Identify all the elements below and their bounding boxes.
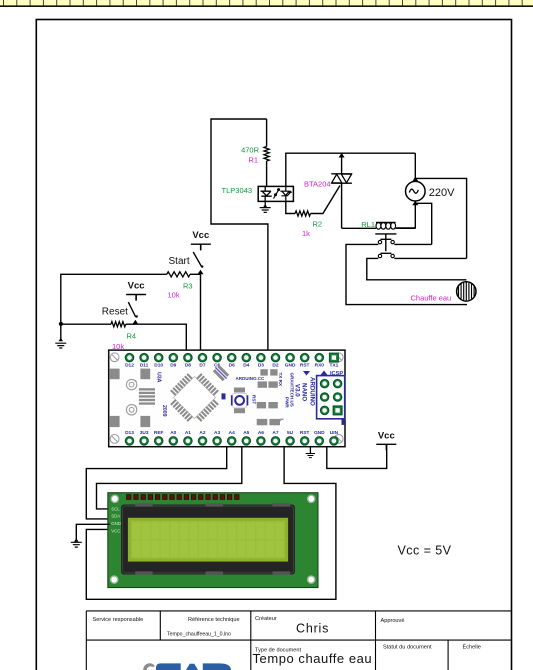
relay RL1 contacts: [375, 234, 396, 258]
svg-text:REF: REF: [154, 430, 164, 436]
svg-text:Reset: Reset: [102, 307, 128, 318]
svg-text:Vcc = 5V: Vcc = 5V: [398, 543, 452, 557]
svg-text:ARDUINO: ARDUINO: [309, 377, 316, 406]
svg-text:UIN: UIN: [330, 430, 339, 436]
junction dot ground rail: [59, 322, 63, 326]
wire: R1 to optocoupler anode: [266, 161, 268, 186]
svg-text:A0: A0: [170, 430, 176, 436]
svg-text:RST: RST: [300, 430, 310, 436]
svg-text:TX1: TX1: [329, 362, 338, 368]
svg-text:Échelle: Échelle: [463, 644, 481, 651]
svg-text:Start: Start: [169, 256, 190, 267]
svg-text:A6: A6: [258, 430, 264, 436]
svg-text:SCL: SCL: [111, 506, 120, 511]
svg-text:GND: GND: [285, 362, 296, 368]
svg-text:RX0: RX0: [315, 362, 325, 368]
wire: source bottom to relay coil: [396, 201, 415, 228]
svg-text:TLP3043: TLP3043: [222, 186, 252, 195]
svg-text:A2: A2: [199, 430, 205, 436]
node: Start junction: [198, 270, 204, 275]
resistor R4: [126, 323, 136, 325]
svg-text:RST: RST: [252, 395, 257, 404]
wire: source bottom tee to relay contact 1R: [415, 203, 431, 244]
resistor R2: [295, 211, 310, 216]
svg-text:3U3: 3U3: [140, 430, 149, 436]
heater "Chauffe eau": [457, 282, 476, 301]
svg-text:ICSP: ICSP: [330, 371, 343, 377]
wire: contact2 right to rail: [394, 257, 466, 259]
node: Reset junction: [132, 320, 138, 325]
svg-text:D6: D6: [229, 362, 235, 368]
relay RL1 coil: [342, 223, 416, 230]
junction at triac MT2: [339, 153, 345, 158]
wire: Reset node right then down to D8: [135, 324, 186, 350]
svg-text:U3A: U3A: [156, 372, 162, 383]
wire: source top tee to right rail: [415, 178, 466, 258]
wire: optocoupler pin6 up to mains node: [286, 153, 416, 186]
svg-text:D3: D3: [258, 362, 264, 368]
svg-text:PWR: PWR: [285, 397, 290, 408]
switch Reset: [128, 295, 138, 318]
LCD module 16x2: [108, 493, 318, 588]
fCAD logo (cut off): [143, 663, 231, 670]
svg-text:10k: 10k: [168, 291, 180, 300]
svg-text:Vcc: Vcc: [128, 281, 145, 292]
svg-text:D8: D8: [185, 362, 191, 368]
svg-text:A7: A7: [272, 430, 278, 436]
svg-text:D12: D12: [125, 362, 134, 368]
svg-text:R1: R1: [248, 156, 258, 165]
svg-text:Vcc: Vcc: [378, 430, 395, 441]
svg-text:Créateur: Créateur: [255, 616, 277, 622]
svg-text:NANO: NANO: [301, 383, 308, 401]
ground: optocoupler cathode: [264, 201, 266, 207]
svg-text:SDA: SDA: [111, 514, 120, 519]
wire: R3 to ground rail: [61, 274, 167, 323]
svg-text:ARDUINO.CC: ARDUINO.CC: [236, 376, 265, 381]
wire: VIN to Vcc: [327, 444, 387, 468]
wire: contact1 right: [394, 243, 431, 245]
svg-text:RL1: RL1: [361, 220, 375, 229]
svg-text:D4: D4: [243, 362, 249, 368]
svg-text:Tempo chauffe eau: Tempo chauffe eau: [253, 651, 373, 666]
wire: A5/SCL to LCD: [97, 447, 242, 509]
svg-text:A1: A1: [185, 430, 191, 436]
wire: contact1 left to heater bottom: [346, 244, 467, 304]
svg-text:TX RX: TX RX: [278, 373, 283, 387]
wire: Start node down to D7: [200, 274, 202, 350]
Arduino Nano board: [109, 350, 345, 447]
title block: [86, 611, 511, 670]
svg-text:Chris: Chris: [296, 622, 329, 636]
svg-text:Service responsable: Service responsable: [93, 617, 144, 623]
svg-text:2009: 2009: [161, 405, 167, 417]
svg-text:L: L: [280, 419, 285, 422]
svg-text:5U: 5U: [287, 430, 294, 436]
svg-text:D13: D13: [125, 430, 134, 436]
svg-text:RST: RST: [300, 362, 310, 368]
svg-text:Approuvé: Approuvé: [381, 618, 405, 624]
ground: left rail: [60, 324, 62, 341]
triac BTA204: [331, 153, 352, 228]
svg-text:Tempo_chauffeeau_1_0.lno: Tempo_chauffeeau_1_0.lno: [167, 631, 231, 637]
ground: Arduino GND pin: [309, 447, 311, 454]
wire: R4 to ground rail: [61, 323, 111, 325]
svg-text:D10: D10: [154, 362, 163, 368]
svg-text:470R: 470R: [241, 146, 260, 155]
wire: optocoupler pin4 to triac gate via R2: [286, 201, 295, 213]
resistor R3: [190, 273, 201, 275]
svg-text:R2: R2: [313, 220, 323, 229]
svg-text:A5: A5: [243, 430, 249, 436]
svg-text:Référence technique: Référence technique: [188, 617, 240, 623]
AC source 220V: [406, 181, 426, 201]
ground: LCD GND pin: [76, 524, 109, 541]
wire: R2 to gate diagonal: [311, 186, 341, 214]
svg-text:A4: A4: [229, 430, 235, 436]
switch Start: [193, 244, 203, 268]
svg-text:R4: R4: [127, 332, 137, 341]
svg-text:R3: R3: [183, 282, 193, 291]
svg-text:BTA204: BTA204: [304, 180, 331, 189]
ruler band: [0, 0, 533, 6]
svg-text:D2: D2: [272, 362, 278, 368]
wire: A4/SDA to LCD: [86, 447, 226, 519]
svg-text:Vcc: Vcc: [192, 230, 209, 241]
svg-text:220V: 220V: [429, 187, 455, 199]
svg-text:GND: GND: [111, 521, 121, 526]
svg-text:VCC: VCC: [111, 529, 120, 534]
svg-text:D9: D9: [170, 362, 176, 368]
svg-text:D11: D11: [140, 362, 149, 368]
resistor R1: [264, 147, 269, 162]
wire: contact2 left to heater top: [367, 258, 467, 279]
svg-text:Chauffe eau: Chauffe eau: [411, 294, 452, 303]
svg-text:A3: A3: [214, 430, 220, 436]
svg-text:D7: D7: [199, 362, 205, 368]
svg-text:V3.0: V3.0: [294, 384, 301, 397]
wire: R1 top feed: [266, 119, 268, 147]
wire: R1 drive loop from Arduino D3: [211, 119, 268, 350]
svg-text:Statut du document: Statut du document: [383, 645, 432, 651]
wire: 5V to LCD VCC (wraps board): [86, 447, 336, 600]
optocoupler U1 TLP3043: [258, 186, 293, 201]
svg-text:1k: 1k: [302, 229, 310, 238]
wire: mains node down to source top: [414, 153, 416, 181]
svg-text:GND: GND: [314, 430, 325, 436]
